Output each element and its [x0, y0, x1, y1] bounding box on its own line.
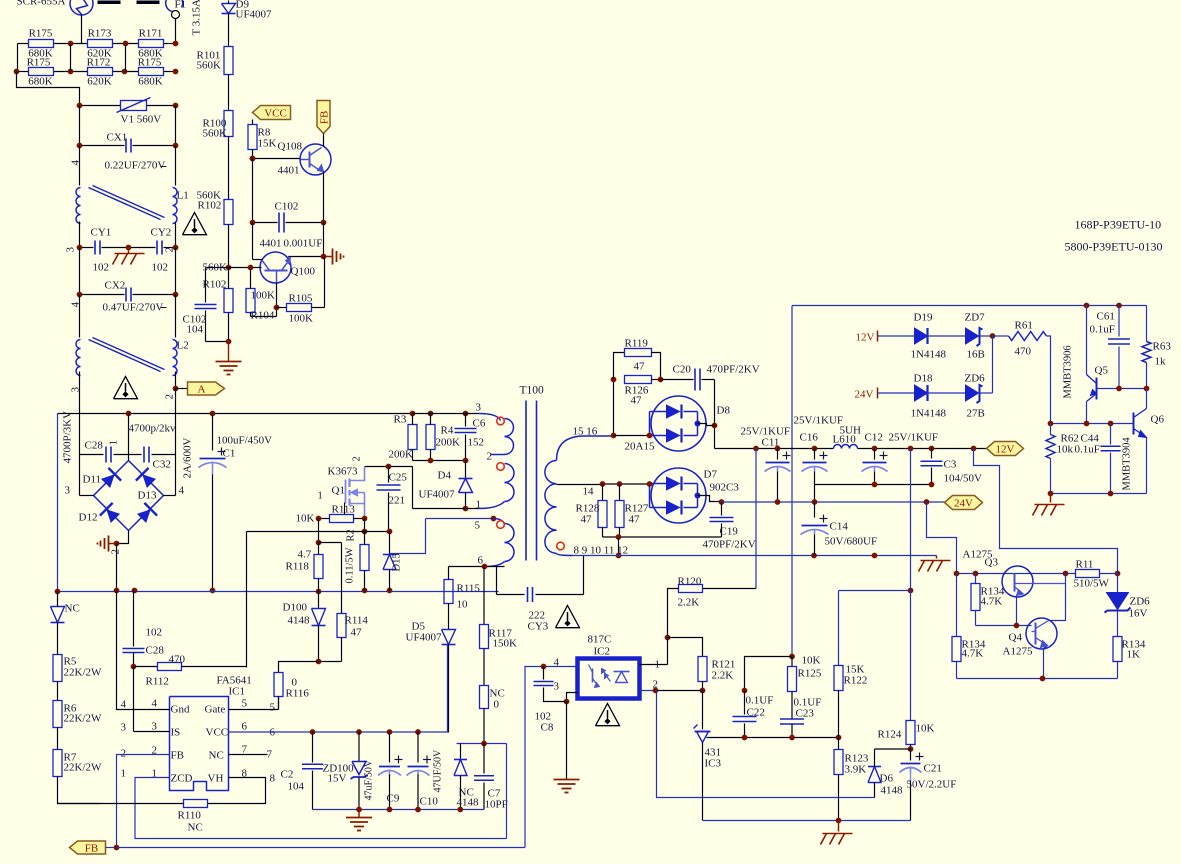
svg-text:10K: 10K	[916, 723, 935, 735]
svg-text:D100: D100	[283, 602, 308, 614]
svg-text:1: 1	[655, 659, 661, 671]
svg-text:R4: R4	[441, 425, 454, 437]
svg-text:560K: 560K	[203, 262, 228, 274]
svg-text:C8: C8	[541, 722, 554, 734]
svg-text:CY1: CY1	[91, 227, 112, 239]
svg-text:4: 4	[554, 657, 560, 669]
svg-text:Q100: Q100	[291, 266, 316, 278]
svg-text:D6: D6	[880, 773, 894, 785]
svg-text:R118: R118	[286, 561, 310, 573]
svg-text:R116: R116	[286, 688, 310, 700]
svg-text:A: A	[198, 384, 206, 396]
svg-text:R114: R114	[345, 615, 369, 627]
svg-text:102: 102	[152, 262, 169, 274]
svg-text:2: 2	[352, 456, 363, 461]
svg-text:104/50V: 104/50V	[944, 473, 983, 485]
svg-text:4401: 4401	[260, 238, 282, 250]
svg-text:C19: C19	[720, 526, 739, 538]
svg-text:0.1uF: 0.1uF	[1090, 324, 1115, 336]
svg-text:24V: 24V	[954, 498, 973, 510]
svg-text:3.9K: 3.9K	[845, 764, 867, 776]
svg-text:47uF/50V: 47uF/50V	[364, 759, 375, 800]
svg-text:47: 47	[634, 361, 646, 373]
svg-text:D19: D19	[914, 312, 933, 324]
svg-text:47: 47	[351, 627, 363, 639]
svg-text:R175: R175	[29, 28, 53, 40]
svg-text:C28: C28	[85, 440, 104, 452]
svg-text:0.001UF: 0.001UF	[284, 238, 323, 250]
svg-text:R110: R110	[178, 810, 202, 822]
svg-text:150K: 150K	[493, 638, 518, 650]
svg-text:0.11/5W: 0.11/5W	[345, 547, 356, 583]
svg-text:FB: FB	[319, 111, 331, 124]
svg-text:L2: L2	[177, 340, 189, 352]
svg-text:5: 5	[270, 702, 276, 714]
svg-text:22K/2W: 22K/2W	[64, 667, 103, 679]
svg-text:R112: R112	[146, 676, 169, 688]
svg-text:221: 221	[389, 495, 406, 507]
svg-text:47: 47	[581, 514, 593, 526]
svg-text:R124: R124	[878, 729, 902, 741]
svg-text:Q1: Q1	[332, 485, 345, 497]
svg-text:R3: R3	[394, 414, 407, 426]
svg-text:NC: NC	[65, 603, 80, 615]
svg-text:1N4148: 1N4148	[911, 349, 947, 361]
svg-text:10k: 10k	[1057, 444, 1074, 456]
svg-text:8: 8	[270, 773, 276, 785]
svg-text:6: 6	[242, 721, 248, 733]
svg-text:Gnd: Gnd	[171, 704, 190, 716]
svg-text:2.2K: 2.2K	[678, 597, 700, 609]
svg-text:2: 2	[653, 679, 659, 691]
svg-text:4148: 4148	[288, 615, 311, 627]
svg-text:R120: R120	[678, 576, 702, 588]
svg-text:C10: C10	[420, 796, 439, 808]
svg-text:4.7K: 4.7K	[962, 648, 984, 660]
svg-text:D7: D7	[704, 469, 718, 481]
svg-text:R125: R125	[798, 668, 822, 680]
svg-text:D8: D8	[717, 405, 731, 417]
svg-text:168P-P39ETU-10: 168P-P39ETU-10	[1075, 218, 1162, 232]
svg-text:C6: C6	[473, 418, 486, 430]
svg-text:IC1: IC1	[229, 686, 246, 698]
svg-text:VH: VH	[208, 773, 224, 785]
svg-text:200K: 200K	[436, 437, 461, 449]
svg-text:Q108: Q108	[278, 141, 303, 153]
svg-text:3: 3	[152, 721, 158, 733]
svg-text:3: 3	[121, 722, 127, 734]
svg-text:C22: C22	[747, 707, 765, 719]
svg-text:50V/680UF: 50V/680UF	[825, 536, 878, 548]
svg-text:IS: IS	[171, 727, 181, 739]
svg-text:470PF/2KV: 470PF/2KV	[707, 364, 760, 376]
svg-text:C1: C1	[223, 448, 236, 460]
svg-text:D15: D15	[392, 553, 403, 571]
svg-text:4700p/2kv: 4700p/2kv	[129, 423, 177, 435]
svg-text:C102: C102	[275, 201, 299, 213]
svg-text:470PF/2KV: 470PF/2KV	[703, 539, 756, 551]
svg-text:D11: D11	[83, 474, 102, 486]
svg-text:R105: R105	[289, 293, 313, 305]
svg-text:A1275: A1275	[1003, 646, 1033, 658]
svg-text:Q5: Q5	[1095, 365, 1109, 377]
svg-text:CY2: CY2	[151, 227, 172, 239]
svg-text:1k: 1k	[1155, 356, 1167, 368]
svg-text:14: 14	[583, 486, 595, 498]
svg-text:D4: D4	[438, 470, 452, 482]
svg-text:4.7: 4.7	[298, 549, 312, 561]
svg-text:200K: 200K	[389, 449, 414, 461]
svg-text:1N4148: 1N4148	[911, 408, 947, 420]
svg-text:25V/1KUF: 25V/1KUF	[794, 415, 844, 427]
svg-text:R113: R113	[332, 504, 356, 516]
svg-text:5: 5	[242, 698, 248, 710]
svg-text:1: 1	[121, 768, 127, 780]
svg-text:47UF/50V: 47UF/50V	[433, 749, 444, 793]
svg-text:560K: 560K	[203, 128, 228, 140]
svg-text:UF4007: UF4007	[406, 632, 443, 644]
svg-text:C16: C16	[800, 432, 819, 444]
svg-text:CX1: CX1	[107, 132, 128, 144]
svg-text:0: 0	[494, 699, 500, 711]
svg-text:R2: R2	[346, 529, 357, 541]
svg-text:ZD6: ZD6	[965, 373, 986, 385]
svg-text:22K/2W: 22K/2W	[64, 762, 103, 774]
svg-text:0.47UF/270V: 0.47UF/270V	[103, 302, 164, 314]
svg-text:2: 2	[121, 748, 127, 760]
svg-text:102: 102	[93, 262, 110, 274]
svg-text:IC3: IC3	[705, 758, 722, 770]
svg-text:12V: 12V	[856, 332, 875, 344]
svg-text:3: 3	[65, 485, 71, 497]
svg-text:5: 5	[475, 520, 481, 532]
svg-text:R102: R102	[198, 200, 222, 212]
svg-text:100uF/450V: 100uF/450V	[217, 435, 273, 447]
svg-text:C23: C23	[796, 708, 815, 720]
svg-text:104: 104	[288, 781, 305, 793]
svg-text:ZD7: ZD7	[965, 312, 986, 324]
svg-text:2: 2	[164, 394, 176, 400]
svg-text:680K: 680K	[28, 76, 53, 88]
svg-text:3: 3	[65, 247, 77, 253]
svg-text:R11: R11	[1076, 559, 1094, 571]
svg-text:12V: 12V	[996, 444, 1015, 456]
svg-text:C20: C20	[673, 364, 692, 376]
svg-text:7: 7	[242, 744, 248, 756]
svg-text:L610: L610	[833, 434, 857, 446]
svg-text:CX2: CX2	[105, 280, 126, 292]
svg-text:100K: 100K	[289, 313, 314, 325]
svg-text:R61: R61	[1015, 320, 1033, 332]
svg-text:152: 152	[468, 437, 485, 449]
svg-text:C32: C32	[153, 459, 171, 471]
svg-text:1: 1	[476, 499, 482, 511]
svg-text:Q4: Q4	[1009, 632, 1023, 644]
svg-text:R175: R175	[27, 57, 51, 69]
svg-text:VCC: VCC	[206, 727, 229, 739]
svg-text:4: 4	[121, 699, 127, 711]
svg-text:10: 10	[457, 599, 469, 611]
svg-text:R104: R104	[251, 310, 275, 322]
svg-text:L1: L1	[177, 190, 189, 202]
svg-text:ZD6: ZD6	[1130, 596, 1151, 608]
svg-text:V1 560V: V1 560V	[121, 114, 162, 126]
svg-text:Q3: Q3	[985, 557, 999, 569]
svg-text:UF4007: UF4007	[236, 9, 273, 21]
svg-text:4148: 4148	[881, 785, 904, 797]
svg-text:2A/600V: 2A/600V	[182, 438, 194, 479]
svg-text:T 3.15A: T 3.15A	[191, 0, 203, 36]
svg-text:NC: NC	[209, 750, 224, 762]
svg-text:104: 104	[187, 324, 204, 336]
svg-text:R63: R63	[1153, 341, 1172, 353]
svg-text:2.2K: 2.2K	[712, 670, 734, 682]
svg-text:4401: 4401	[278, 165, 300, 177]
svg-text:D18: D18	[914, 373, 933, 385]
svg-text:10K: 10K	[802, 655, 821, 667]
svg-text:3: 3	[70, 387, 82, 393]
svg-text:16B: 16B	[967, 349, 985, 361]
svg-text:C14: C14	[830, 521, 849, 533]
svg-text:560K: 560K	[197, 60, 222, 72]
svg-text:3: 3	[476, 402, 482, 414]
svg-text:D12: D12	[79, 512, 98, 524]
svg-text:1: 1	[108, 440, 120, 446]
svg-text:R122: R122	[844, 675, 868, 687]
svg-text:C28: C28	[146, 645, 165, 657]
svg-text:5800-P39ETU-0130: 5800-P39ETU-0130	[1065, 240, 1163, 254]
svg-text:C61: C61	[1097, 311, 1115, 323]
svg-text:Q6: Q6	[1151, 414, 1165, 426]
svg-text:MMBT3904: MMBT3904	[1122, 437, 1133, 491]
svg-text:R119: R119	[625, 338, 649, 350]
svg-text:10K: 10K	[296, 513, 315, 525]
svg-text:0.1uF: 0.1uF	[1075, 444, 1100, 456]
svg-text:R115: R115	[457, 583, 481, 595]
svg-text:VCC: VCC	[264, 108, 287, 120]
svg-text:NC: NC	[188, 822, 203, 834]
svg-text:2: 2	[110, 549, 122, 555]
svg-text:4: 4	[152, 698, 158, 710]
svg-text:902C3: 902C3	[710, 482, 740, 494]
svg-text:510/5W: 510/5W	[1074, 578, 1110, 590]
svg-text:680K: 680K	[138, 76, 163, 88]
svg-text:SCR-655A: SCR-655A	[17, 0, 66, 8]
svg-text:0.22UF/270V: 0.22UF/270V	[105, 160, 166, 172]
svg-text:F1: F1	[175, 0, 187, 11]
svg-text:470: 470	[1015, 346, 1032, 358]
svg-text:C2: C2	[281, 769, 294, 781]
svg-text:C3: C3	[944, 459, 957, 471]
svg-text:C9: C9	[387, 793, 400, 805]
svg-text:15 16: 15 16	[573, 426, 598, 438]
svg-text:T100: T100	[520, 385, 545, 397]
svg-text:620K: 620K	[87, 76, 112, 88]
svg-text:817C: 817C	[588, 634, 612, 646]
svg-text:2: 2	[164, 247, 176, 253]
svg-text:0.1UF: 0.1UF	[746, 695, 774, 707]
svg-text:FB: FB	[171, 750, 184, 762]
svg-text:CY3: CY3	[528, 621, 549, 633]
svg-text:ZCD: ZCD	[171, 773, 193, 785]
svg-text:15V: 15V	[328, 773, 347, 785]
svg-text:R172: R172	[87, 57, 111, 69]
svg-text:3: 3	[554, 681, 560, 693]
svg-text:10PF: 10PF	[485, 799, 508, 811]
svg-text:C12: C12	[865, 432, 883, 444]
svg-text:D13: D13	[138, 490, 157, 502]
svg-text:25V/1KUF: 25V/1KUF	[889, 432, 939, 444]
svg-text:24V: 24V	[855, 389, 874, 401]
svg-text:1: 1	[318, 491, 323, 502]
svg-text:UF4007: UF4007	[419, 489, 456, 501]
svg-text:4: 4	[179, 485, 185, 497]
svg-text:20A15: 20A15	[625, 441, 655, 453]
svg-text:C21: C21	[924, 763, 942, 775]
svg-text:R175: R175	[138, 57, 162, 69]
svg-text:50V/2.2UF: 50V/2.2UF	[907, 779, 957, 791]
svg-text:16V: 16V	[1129, 608, 1148, 620]
svg-text:FB: FB	[85, 843, 98, 855]
svg-text:47: 47	[629, 514, 641, 526]
svg-text:R171: R171	[139, 28, 163, 40]
svg-text:47: 47	[631, 395, 643, 407]
svg-text:4.7K: 4.7K	[981, 596, 1003, 608]
svg-text:15K: 15K	[258, 138, 277, 150]
svg-text:102: 102	[146, 627, 163, 639]
svg-text:R173: R173	[88, 28, 112, 40]
svg-text:4700P/3KV: 4700P/3KV	[62, 411, 74, 464]
svg-text:27B: 27B	[967, 408, 985, 420]
svg-text:C11: C11	[762, 437, 780, 449]
svg-text:C25: C25	[389, 472, 408, 484]
svg-text:1K: 1K	[1127, 649, 1141, 661]
svg-text:470: 470	[169, 654, 186, 666]
svg-text:100K: 100K	[251, 290, 276, 302]
svg-text:IC2: IC2	[594, 646, 611, 658]
svg-text:2: 2	[487, 451, 493, 463]
svg-text:MMBT3906: MMBT3906	[1063, 345, 1074, 398]
svg-text:K3673: K3673	[328, 466, 358, 478]
svg-text:Gate: Gate	[205, 704, 226, 716]
svg-text:22K/2W: 22K/2W	[64, 713, 103, 725]
